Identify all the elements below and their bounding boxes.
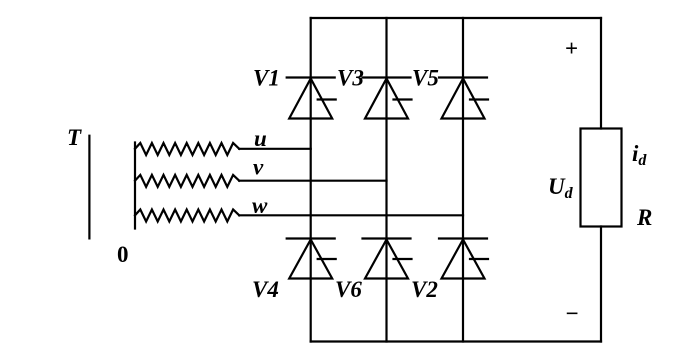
thyristor V4 [287, 239, 336, 279]
thyristor V5 [439, 78, 488, 119]
svg-text:Ud: Ud [548, 174, 574, 202]
svg-text:R: R [636, 205, 652, 230]
svg-text:T: T [67, 125, 82, 150]
wire phase v to bridge [239, 180, 386, 182]
wire column 2 (phase v leg) [385, 18, 387, 342]
svg-text:+: + [565, 36, 578, 61]
svg-text:V3: V3 [337, 66, 364, 91]
wire right branch lower [600, 227, 602, 342]
thyristor V6 [363, 239, 412, 279]
winding phase u (zigzag) [135, 143, 239, 155]
thyristor V3 [363, 78, 412, 119]
svg-text:v: v [253, 155, 264, 180]
svg-text:0: 0 [117, 242, 129, 267]
thyristor V2 [439, 239, 488, 279]
wire phase u to bridge [239, 148, 311, 150]
wire column 1 (phase u leg) [310, 18, 312, 342]
wire column 3 (phase w leg) [462, 18, 464, 342]
wire top bus [311, 17, 601, 19]
resistor R load rectangle [581, 129, 622, 227]
transformer primary bar T [88, 136, 90, 239]
wire bottom bus [311, 340, 601, 342]
svg-text:id: id [632, 141, 647, 169]
wire phase w to bridge [239, 214, 463, 216]
svg-text:V6: V6 [335, 277, 362, 302]
winding phase w (zigzag) [135, 210, 239, 222]
svg-text:V5: V5 [412, 66, 439, 91]
thyristor V1 [287, 78, 336, 119]
transformer secondary neutral bar [134, 143, 136, 229]
winding phase v (zigzag) [135, 175, 239, 187]
svg-text:V1: V1 [253, 66, 280, 91]
svg-text:V2: V2 [411, 277, 438, 302]
wire right branch upper [600, 18, 602, 129]
svg-text:−: − [565, 301, 578, 326]
svg-text:V4: V4 [252, 277, 279, 302]
svg-text:u: u [254, 126, 267, 151]
svg-text:w: w [252, 193, 268, 218]
